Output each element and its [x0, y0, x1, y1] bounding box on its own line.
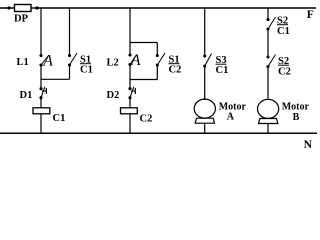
svg-text:D2: D2 [107, 90, 120, 101]
wire top rail left segment [0, 7, 14, 9]
svg-text:N: N [304, 139, 313, 150]
motor B [258, 99, 279, 123]
svg-text:L2: L2 [107, 58, 119, 69]
svg-text:C2: C2 [278, 67, 291, 78]
svg-text:C1: C1 [53, 113, 66, 124]
wire S1/C1 drop [69, 8, 71, 56]
svg-text:C1: C1 [277, 26, 290, 37]
svg-text:F: F [307, 9, 314, 21]
svg-text:L1: L1 [17, 57, 29, 68]
svg-text:B: B [293, 112, 300, 123]
wire parallel connector (S1/C1 holding contact) [41, 78, 70, 80]
wire coil C2 to N rail [129, 114, 131, 133]
wire D1 to coil C1 [40, 98, 42, 108]
contact D2 (interlock) [128, 87, 135, 99]
wire S2/C1 to S2/C2 [267, 29, 269, 57]
svg-text:C1: C1 [80, 65, 93, 76]
contact D1 (interlock) [39, 87, 46, 99]
wire parallel connector (S1/C2 holding contact) [130, 79, 157, 81]
svg-text:A: A [227, 112, 235, 123]
contact S1/C2 [156, 53, 165, 67]
label Motor A [219, 101, 247, 122]
motor A [194, 99, 215, 123]
wire S1/C2 to connector [156, 65, 158, 80]
contact S2/C1 [266, 17, 275, 31]
switch A (start push-button, branch 2) [128, 53, 136, 66]
contact S1/C1 [68, 53, 77, 67]
label S3/C1 [216, 55, 229, 76]
svg-text:C2: C2 [169, 65, 182, 76]
svg-text:A: A [42, 52, 53, 69]
svg-text:Motor: Motor [282, 102, 310, 113]
wire bottom rail N [0, 132, 317, 134]
wire D2 to coil C2 [129, 98, 131, 108]
svg-text:A: A [130, 52, 141, 69]
svg-text:C1: C1 [216, 65, 229, 76]
wire branch L1 drop [40, 8, 42, 56]
wire branch L2 drop [129, 8, 131, 56]
label S2/C2 [278, 56, 291, 78]
contact S3/C1 (motor A contactor) [203, 54, 211, 68]
svg-text:D1: D1 [20, 90, 33, 101]
wire S1/C1 to connector [69, 65, 71, 79]
wire S3 drop [204, 8, 206, 56]
coil C1 [33, 108, 50, 114]
label Motor B [282, 102, 310, 124]
wire top rail [37, 7, 316, 9]
label S1/C1 [80, 55, 93, 76]
wire switch A to contact D1 [40, 65, 42, 89]
label S1/C2 [169, 55, 182, 76]
contact S2/C2 [266, 55, 275, 69]
wire S3 to motor A [204, 66, 206, 100]
coil C2 [121, 108, 138, 114]
switch A (start push-button, branch 1) [39, 54, 48, 67]
fuse DP [7, 5, 38, 12]
wire S2/C2 to motor B [267, 67, 269, 99]
svg-text:DP: DP [14, 14, 29, 25]
label S2/C1 [277, 16, 290, 38]
wire motor B to N rail [267, 124, 269, 134]
wire S1/C2 drop [156, 43, 158, 56]
wire motor A to N rail [204, 123, 206, 133]
wire bracket L2 to S1/C2 [130, 42, 157, 44]
wire switch A to contact D2 [129, 65, 131, 89]
wire coil C1 to N rail [40, 114, 42, 133]
wire S2/C1 drop [267, 8, 269, 20]
svg-text:C2: C2 [140, 114, 153, 125]
